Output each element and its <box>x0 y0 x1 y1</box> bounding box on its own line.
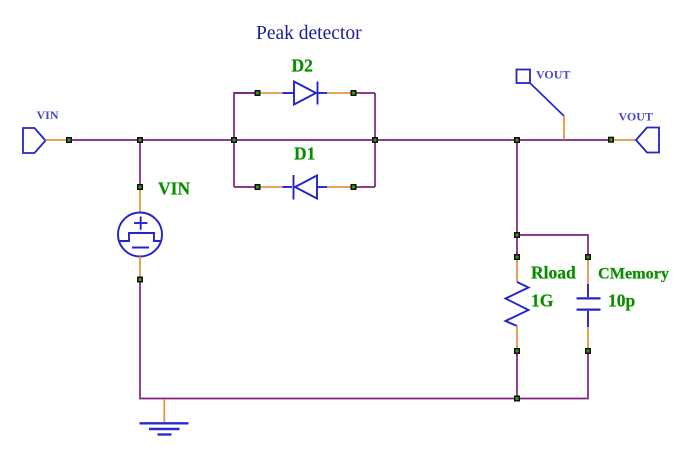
port VIN <box>23 128 46 153</box>
probe VOUT stub (orange) <box>563 116 565 140</box>
svg-text:1G: 1G <box>531 291 554 311</box>
resistor Rload <box>506 282 529 326</box>
junction load branch T <box>514 232 520 238</box>
wire T to Rload junction (purple) <box>516 235 518 255</box>
diode D1 <box>283 175 328 200</box>
wire source branch lower (purple) <box>139 281 141 399</box>
svg-text:VIN: VIN <box>158 179 190 199</box>
junction Rload bottom pin <box>514 348 520 354</box>
wire diode branch left vertical <box>234 93 255 187</box>
junction VOUT port pin <box>608 137 614 143</box>
wire top-right corner (purple) <box>356 92 375 94</box>
svg-text:Rload: Rload <box>531 263 576 283</box>
junction source top pin <box>137 184 143 190</box>
port VOUT <box>636 128 659 153</box>
wire load branch vertical from main (purple) <box>516 140 518 236</box>
junction D1 anode pin <box>351 184 357 190</box>
wire source bottom pin stub (orange) <box>139 257 141 279</box>
junction ground net T <box>514 396 520 402</box>
wire Rload top stub (orange) <box>516 258 518 282</box>
wire bottom-left corner to D1 junction (purple) <box>234 186 255 188</box>
junction at VIN port pin <box>66 137 72 143</box>
wire source top pin stub (orange) <box>139 188 141 213</box>
wire diode branch right vertical <box>374 93 376 187</box>
wire bottom ground net horizontal <box>139 398 589 400</box>
capacitor CMemory <box>577 284 601 327</box>
wire CMemory bottom stub (orange) <box>587 327 589 348</box>
wire Rload to ground net (purple) <box>516 351 518 399</box>
wire D2 anode stub (orange) <box>260 92 283 94</box>
wire D1 cathode stub (orange) <box>260 186 283 188</box>
svg-text:10p: 10p <box>608 291 636 311</box>
junction CMemory bottom pin <box>585 348 591 354</box>
probe VOUT square <box>517 70 531 84</box>
svg-text:Peak detector: Peak detector <box>256 23 362 44</box>
junction diode branch right on main wire <box>372 137 378 143</box>
junction load branch on main wire <box>514 137 520 143</box>
wire bottom-right corner (purple) <box>356 186 375 188</box>
wire main horizontal net VIN <box>69 139 517 141</box>
junction source tap on main wire <box>137 137 143 143</box>
probe VOUT diagonal lead <box>530 83 564 116</box>
wire load branch T horizontal (purple) <box>517 235 588 255</box>
diode D2 <box>283 82 328 105</box>
svg-text:D1: D1 <box>294 144 315 164</box>
svg-text:VOUT: VOUT <box>619 110 653 124</box>
wire VOUT port stub (orange) <box>613 139 636 141</box>
ground symbol <box>140 423 189 434</box>
junction diode branch left on main wire <box>231 137 237 143</box>
junction Rload top pin <box>514 254 520 260</box>
junction D2 anode pin <box>255 90 261 96</box>
ground stub (orange) <box>163 399 165 422</box>
wire top-left corner to D2 junction (purple) <box>234 92 255 94</box>
svg-text:VOUT: VOUT <box>536 68 570 82</box>
wire CMemory to ground net (purple) <box>587 351 589 399</box>
wire D1 anode stub (orange) <box>327 186 351 188</box>
svg-text:D2: D2 <box>292 56 313 76</box>
wire port VIN stub (orange) <box>46 139 68 141</box>
svg-text:VIN: VIN <box>37 108 59 122</box>
wire Rload bottom stub (orange) <box>516 326 518 348</box>
junction D2 cathode pin <box>351 90 357 96</box>
wire main horizontal to VOUT port <box>517 139 611 141</box>
wire source branch upper (purple) <box>139 140 141 186</box>
wire D2 cathode stub (orange) <box>327 92 351 94</box>
svg-text:CMemory: CMemory <box>598 264 669 282</box>
junction source bottom pin <box>137 277 143 283</box>
junction CMemory top pin <box>585 254 591 260</box>
wire CMemory top stub (orange) <box>587 258 589 284</box>
junction D1 cathode pin <box>255 184 261 190</box>
voltage source VIN <box>118 213 162 257</box>
